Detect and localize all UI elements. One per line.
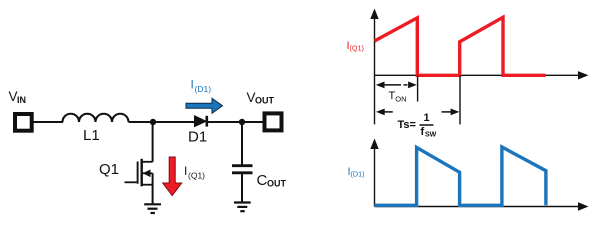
top plot: x axis with arrow [375,71,589,79]
marker line at Ts end [459,75,461,124]
terminal VIN label [9,89,27,105]
label L1 [83,127,100,144]
wire output node down to COUT [241,122,243,166]
svg-text:I: I [191,78,194,92]
marker line at TON end [417,75,419,101]
label D1 [188,129,207,146]
wire Q1 source to ground [152,173,154,204]
TON dimension arrow [376,82,417,89]
waveform I(D1) blue [375,147,546,205]
svg-text:(Q1): (Q1) [188,171,205,181]
wire COUT to ground [241,174,243,203]
label TON [389,90,407,104]
svg-text:OUT: OUT [255,96,275,106]
wire diode to output node [207,121,263,123]
label COUT [257,172,287,189]
top plot: y axis with arrow [370,9,378,125]
svg-text:C: C [257,172,268,189]
diode D1 [195,116,207,127]
terminal VOUT square [265,113,282,130]
svg-text:Q1: Q1 [99,161,119,178]
svg-text:(D1): (D1) [351,170,365,179]
label I(D1) blue [191,78,212,95]
label I(Q1) red [347,40,364,53]
terminal VIN square [15,114,32,131]
label I(D1) blue [348,166,365,179]
current arrow I(Q1) [163,157,182,196]
svg-text:(D1): (D1) [195,84,212,94]
wire L1 to diode [129,121,196,123]
node junction at switch [150,119,156,125]
svg-text:OUT: OUT [267,179,287,189]
waveform I(Q1) red [375,17,546,75]
terminal VOUT label [247,90,275,106]
label I(Q1) black [184,164,205,181]
wire switch node down to Q1 drain [152,122,154,162]
svg-text:D1: D1 [188,129,207,146]
svg-text:IN: IN [17,95,26,105]
svg-text:f: f [421,126,425,138]
label Ts= 1/fsw [398,112,437,139]
wire VIN to L1 [33,121,63,123]
label Q1 [99,161,119,178]
transistor Q1 (N-MOSFET) [125,159,153,187]
svg-text:(Q1): (Q1) [350,44,364,53]
svg-text:Ts=: Ts= [398,119,416,131]
svg-text:1: 1 [424,112,430,124]
svg-text:SW: SW [425,132,437,139]
ground (Q1) [144,204,161,213]
svg-text:I: I [184,164,187,178]
current arrow I(D1) [186,98,223,113]
svg-text:L1: L1 [83,127,100,144]
Ts dimension arrow [376,109,459,116]
capacitor COUT [232,166,253,173]
bottom plot: y axis with arrow [370,139,378,207]
bottom plot: x axis with arrow [375,202,589,210]
inductor L1 [63,114,129,122]
ground (COUT) [234,203,251,212]
svg-text:ON: ON [395,95,406,104]
node junction at output [239,119,245,125]
